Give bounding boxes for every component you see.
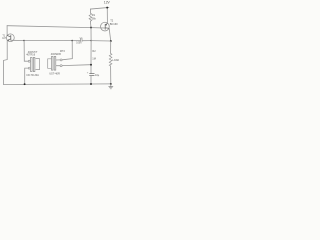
capacitor C4 inline bbox=[81, 39, 83, 42]
node junction dot load/rail bbox=[110, 83, 112, 85]
resistor LOAD bbox=[109, 53, 112, 66]
node junction small bbox=[90, 40, 91, 41]
wire X2 bottom pin bbox=[56, 65, 60, 67]
node junction dot base/TX bbox=[23, 40, 25, 42]
node junction dot base/RX bbox=[71, 40, 73, 42]
node junction dot W1/R1 bbox=[90, 27, 92, 29]
transistor T2 bbox=[101, 22, 110, 31]
svg-text:R1: R1 bbox=[92, 13, 96, 17]
label C5 bbox=[92, 49, 96, 61]
transducer X2 horn bbox=[48, 59, 52, 69]
background bbox=[0, 0, 120, 93]
wire load top lead bbox=[110, 41, 112, 53]
wire T2 collector lead bbox=[109, 28, 111, 41]
wire RX top to node bbox=[62, 41, 72, 60]
transducer X2 pad top bbox=[60, 59, 62, 61]
transducer X2 pad bottom bbox=[60, 65, 62, 67]
transducer X1 horn bbox=[36, 59, 40, 70]
svg-text:10µ: 10µ bbox=[95, 74, 100, 77]
svg-text:R2: R2 bbox=[92, 49, 96, 53]
svg-text:CR-TR-30A: CR-TR-30A bbox=[26, 74, 39, 77]
wire X2 top pin bbox=[56, 59, 60, 61]
svg-text:100n: 100n bbox=[76, 42, 82, 44]
wire collector T2 to load bbox=[91, 40, 111, 42]
node junction dot collector/load bbox=[110, 40, 112, 42]
svg-text:BC160: BC160 bbox=[110, 22, 118, 26]
wire top rail bbox=[90, 7, 109, 9]
transistor T1 bbox=[6, 34, 14, 42]
wire TX bottom return bbox=[25, 68, 29, 84]
svg-text:12V: 12V bbox=[104, 1, 111, 5]
svg-text:56k: 56k bbox=[92, 17, 97, 21]
wire C4 right lead bbox=[82, 40, 91, 42]
transducer X1 pad bottom bbox=[28, 67, 30, 69]
wire RX bottom to node B bbox=[62, 64, 91, 67]
wire C5 bottom lead bbox=[90, 76, 92, 84]
wire node B vertical bbox=[90, 28, 92, 74]
svg-text:1M: 1M bbox=[92, 56, 96, 60]
svg-text:LOAD: LOAD bbox=[113, 59, 120, 62]
svg-text:MT2: MT2 bbox=[60, 50, 66, 53]
node junction dot RX/node B bbox=[90, 64, 92, 66]
capacitor C5 electrolytic bbox=[90, 74, 95, 76]
wire load bottom lead bbox=[110, 66, 112, 84]
node junction dot rail/T2 bbox=[106, 7, 108, 9]
wire long base line from T1 to T2 bbox=[7, 26, 105, 28]
wire bottom rail bbox=[4, 83, 111, 86]
transducer X1 pad top bbox=[28, 60, 30, 62]
node junction dot C5/rail bbox=[90, 83, 92, 85]
svg-text:40TR16: 40TR16 bbox=[26, 54, 36, 57]
wire TX top feed bbox=[24, 41, 28, 62]
wire T1 collector lead down bbox=[4, 41, 8, 85]
wire R1 top lead bbox=[89, 9, 91, 13]
wire T1 emitter lead bbox=[6, 26, 8, 36]
transducer X1 plates bbox=[31, 58, 33, 72]
svg-text:UST-40R: UST-40R bbox=[49, 71, 60, 75]
transducer X2 plates bbox=[51, 57, 53, 71]
node +12V supply label bbox=[104, 1, 111, 5]
node junction dot TX/rail bbox=[24, 83, 26, 85]
wire T2 emitter lead bbox=[106, 8, 108, 23]
ground bbox=[109, 84, 113, 89]
wire T1 base lead bbox=[11, 39, 80, 41]
svg-text:400SR/R: 400SR/R bbox=[51, 53, 61, 56]
wire R1 bottom lead bbox=[89, 21, 92, 27]
resistor R1 bbox=[89, 13, 92, 21]
